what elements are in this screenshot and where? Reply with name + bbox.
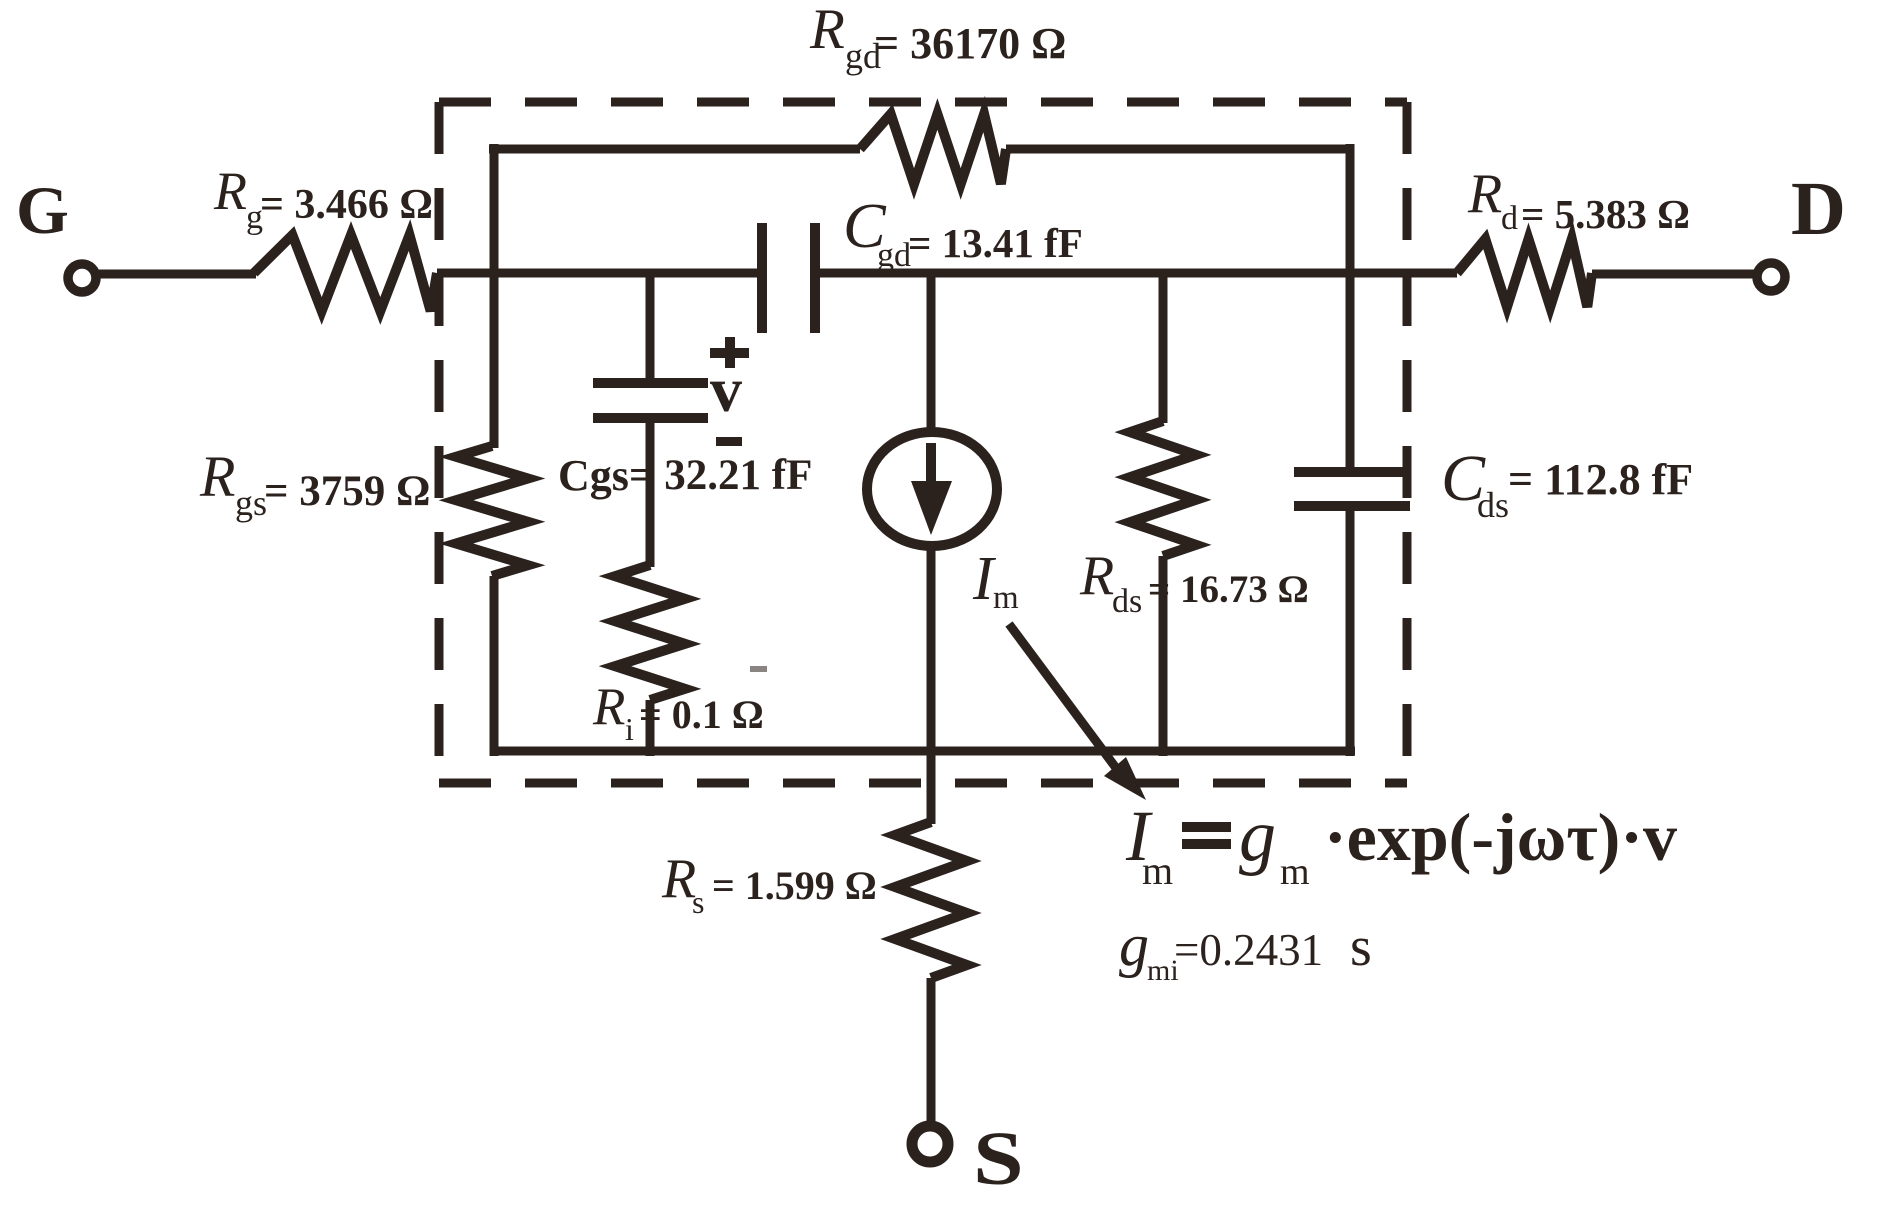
- label minus sign of v: [716, 437, 742, 446]
- dashed intrinsic box bottom edge: [439, 779, 1407, 788]
- label Cds = 112.8 fF: [1441, 442, 1693, 525]
- svg-text:m: m: [1280, 851, 1310, 893]
- svg-text:·exp(-jωτ)·v: ·exp(-jωτ)·v: [1324, 799, 1677, 875]
- dashed intrinsic box right edge: [1403, 102, 1412, 783]
- wire left inner vertical upper (gate to Rgs): [490, 144, 499, 448]
- label Rgd = 36170 ohm: [809, 0, 1066, 76]
- capacitor Cgd right plate: [810, 223, 820, 333]
- svg-text:R: R: [1467, 163, 1502, 225]
- resistor Rs: [895, 822, 967, 978]
- svg-text:R: R: [661, 848, 696, 910]
- current source arrow: [911, 443, 952, 535]
- svg-text:= 112.8 fF: = 112.8 fF: [1508, 455, 1693, 504]
- label Ri = 0.1 ohm: [592, 678, 764, 747]
- resistor Rg: [254, 235, 437, 311]
- annotation arrow Im to equation: [1009, 624, 1146, 800]
- svg-text:ds: ds: [1112, 583, 1142, 620]
- artifact small dash: [750, 666, 767, 672]
- dashed intrinsic box top edge: [439, 98, 1407, 107]
- wire Rd to terminal D: [1592, 270, 1757, 279]
- svg-text:gs: gs: [235, 483, 267, 523]
- wire Cgd to drain node: [815, 269, 1457, 278]
- wire Cds to bottom rail: [1346, 506, 1355, 756]
- capacitor Cgd left plate: [757, 223, 767, 333]
- label Im at source: [972, 545, 1019, 616]
- svg-text:d: d: [1501, 200, 1518, 237]
- capacitor Cgs bottom plate: [593, 413, 708, 423]
- wire Rds branch upper: [1159, 273, 1168, 423]
- wire bottom rail: [490, 747, 1355, 756]
- svg-text:ds: ds: [1477, 485, 1509, 525]
- label Rs = 1.599 ohm: [661, 848, 877, 920]
- svg-text:= 16.73 Ω: = 16.73 Ω: [1148, 568, 1309, 611]
- equation Im = gm exp(-j omega tau) v: [1125, 795, 1677, 893]
- svg-text:G: G: [16, 172, 69, 248]
- capacitor Cds bottom plate: [1294, 501, 1410, 511]
- wire current source to Rs: [927, 545, 936, 824]
- label Cgs = 32.21 fF: [558, 451, 812, 500]
- wire Rg to Cgd (gate node): [437, 269, 762, 278]
- svg-text:= 5.383 Ω: = 5.383 Ω: [1521, 191, 1690, 237]
- svg-text:R: R: [199, 444, 235, 509]
- resistor Rgd: [860, 114, 1006, 184]
- svg-text:gd: gd: [877, 237, 911, 274]
- label Rds = 16.73 ohm: [1079, 545, 1309, 620]
- svg-text:m: m: [993, 580, 1019, 616]
- svg-text:g: g: [1119, 912, 1149, 978]
- wire G to Rg: [96, 270, 256, 279]
- terminal D: [1757, 263, 1785, 291]
- label Rd = 5.383 ohm: [1467, 163, 1690, 237]
- wire Ri to bottom rail: [646, 700, 655, 756]
- svg-text:Cgs: Cgs: [558, 451, 629, 500]
- resistor Ri: [615, 565, 685, 700]
- terminal G: [68, 264, 96, 292]
- wire Cgs to Ri: [646, 418, 655, 567]
- svg-text:m: m: [1142, 848, 1173, 893]
- equation gmi = 0.2431 s: [1119, 912, 1372, 987]
- label plus sign of v: [710, 348, 749, 358]
- svg-text:= 0.1 Ω: = 0.1 Ω: [639, 692, 764, 737]
- label Rg = 3.466 ohm: [213, 161, 433, 236]
- svg-text:=0.2431: =0.2431: [1174, 925, 1323, 975]
- label Cgd = 13.41 fF: [843, 190, 1083, 274]
- svg-text:= 36170 Ω: = 36170 Ω: [874, 19, 1066, 68]
- svg-text:v: v: [710, 354, 742, 425]
- capacitor Cgs top plate: [593, 378, 708, 388]
- svg-text:g: g: [1239, 795, 1276, 877]
- resistor Rgs: [456, 446, 528, 576]
- svg-text:R: R: [592, 678, 625, 736]
- svg-text:i: i: [625, 711, 634, 747]
- wire left inner vertical lower: [490, 576, 499, 756]
- resistor Rds: [1130, 421, 1196, 556]
- current source Im circle: [867, 432, 997, 546]
- wire Rds to bottom rail: [1159, 556, 1168, 756]
- svg-text:= 32.21 fF: = 32.21 fF: [629, 452, 812, 499]
- svg-text:R: R: [809, 0, 845, 61]
- wire Rs to terminal S: [927, 978, 936, 1121]
- wire right inner vertical (top loop to Cds): [1346, 144, 1355, 472]
- label Rgs = 3759 ohm: [199, 444, 430, 523]
- dashed intrinsic box left edge: [435, 102, 444, 783]
- wire Cgs branch upper: [646, 273, 655, 383]
- svg-text:= 3.466 Ω: = 3.466 Ω: [260, 182, 433, 228]
- resistor Rd: [1457, 239, 1592, 307]
- svg-text:R: R: [213, 161, 247, 221]
- svg-text:= 1.599 Ω: = 1.599 Ω: [712, 863, 877, 908]
- capacitor Cds top plate: [1294, 467, 1410, 477]
- svg-text:S: S: [973, 1117, 1024, 1201]
- wire current source branch upper: [927, 273, 936, 434]
- svg-text:R: R: [1079, 545, 1114, 607]
- svg-text:s: s: [692, 884, 704, 920]
- wire top loop right segment: [1006, 145, 1354, 154]
- svg-text:s: s: [1350, 916, 1372, 978]
- svg-text:D: D: [1791, 167, 1846, 251]
- svg-text:= 13.41 fF: = 13.41 fF: [908, 220, 1083, 266]
- svg-text:= 3759 Ω: = 3759 Ω: [264, 468, 430, 515]
- terminal S: [912, 1126, 948, 1162]
- wire top loop left segment: [489, 145, 860, 154]
